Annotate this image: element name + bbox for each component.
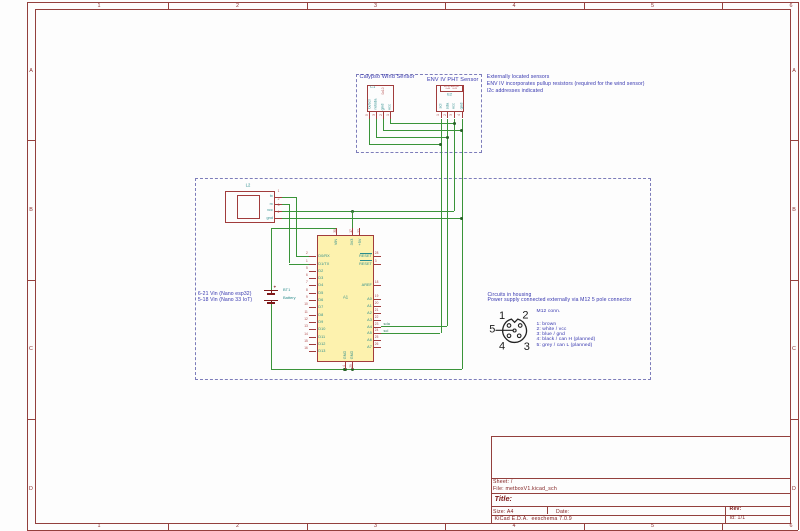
svg-text:4: 4 [499, 341, 505, 353]
svg-text:5: 5 [489, 324, 495, 336]
svg-text:1: 1 [499, 310, 505, 322]
svg-text:2: 2 [522, 310, 528, 322]
svg-text:3: 3 [524, 341, 530, 353]
